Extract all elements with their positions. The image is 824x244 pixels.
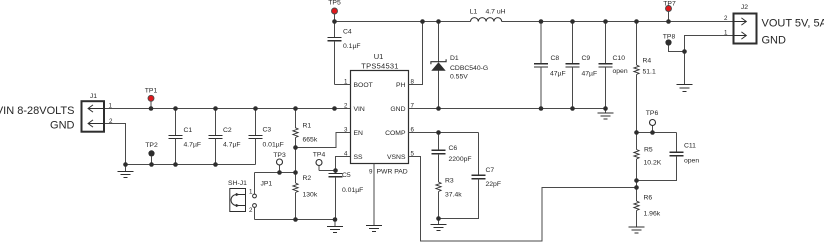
capacitor C8: [534, 22, 548, 109]
junction dots on switch node rail: [332, 19, 671, 24]
wire power ground rail: [409, 108, 606, 110]
wire VSNS feedback route: [409, 157, 637, 242]
junction dot node EN divider: [293, 145, 298, 150]
wire EN node row to JP1 and TP3: [255, 172, 296, 174]
svg-text:9: 9: [369, 169, 373, 176]
svg-text:TP8: TP8: [663, 34, 676, 41]
svg-text:0.55V: 0.55V: [450, 74, 468, 81]
capacitor C11: [670, 133, 684, 156]
svg-text:51.1: 51.1: [643, 69, 656, 76]
svg-text:665k: 665k: [303, 137, 318, 144]
capacitor C3: [249, 109, 263, 165]
wire TP6 stub: [652, 126, 654, 133]
test point TP5: [332, 8, 338, 14]
svg-text:SS: SS: [354, 154, 364, 161]
wire C4 to BOOT pin: [335, 84, 351, 86]
shunt SH-J1 symbol: [231, 193, 246, 207]
svg-text:R5: R5: [644, 147, 653, 154]
inductor L1: [471, 18, 502, 22]
svg-text:TP7: TP7: [663, 1, 676, 8]
svg-text:4.7µF: 4.7µF: [184, 142, 202, 149]
svg-text:D1: D1: [450, 55, 459, 62]
svg-text:C1: C1: [184, 127, 193, 134]
connector J1: [82, 101, 105, 132]
svg-text:2: 2: [724, 15, 728, 22]
svg-text:R2: R2: [303, 175, 312, 182]
junction dots on TP6 row: [634, 130, 655, 135]
wire switch node top rail left: [335, 21, 471, 23]
junction dot COMP node: [436, 130, 441, 135]
svg-text:2: 2: [344, 103, 348, 110]
ground symbol for compensation network: [431, 219, 447, 231]
svg-text:J1: J1: [90, 93, 97, 100]
wire PWR PAD pin 9 to ground: [373, 164, 375, 226]
svg-text:J2: J2: [741, 4, 748, 11]
svg-text:C5: C5: [342, 172, 351, 179]
wire TP6 row to C11: [637, 132, 677, 134]
op-amp U1 TPS54531 box: [351, 71, 409, 164]
svg-text:4: 4: [344, 151, 348, 158]
svg-text:C9: C9: [582, 55, 591, 62]
svg-text:C8: C8: [551, 55, 560, 62]
svg-text:VSNS: VSNS: [387, 154, 406, 161]
svg-text:VIN 8-28VOLTS: VIN 8-28VOLTS: [0, 105, 75, 117]
connector J1 pin 2 arrow: [88, 120, 104, 127]
ground symbol for output connector: [677, 52, 693, 92]
wire R1-R2 junction down to R2: [295, 148, 297, 184]
wire VIN rail from J1 to U1 VIN pin: [105, 108, 351, 110]
svg-text:TP2: TP2: [145, 142, 158, 149]
wire COMP pin row: [409, 132, 479, 134]
svg-text:C6: C6: [449, 145, 458, 152]
resistor R5: [634, 133, 639, 188]
test point TP2: [148, 150, 154, 156]
svg-text:SH-J1: SH-J1: [228, 180, 247, 187]
svg-text:EN: EN: [354, 130, 364, 137]
wire input ground rail: [126, 164, 256, 166]
capacitor C7: [472, 133, 486, 179]
junction dot C11 bottom node: [634, 178, 639, 183]
capacitor C2: [209, 109, 223, 165]
junction dot compensation ground node: [436, 216, 441, 221]
svg-text:C10: C10: [613, 55, 626, 62]
svg-text:130k: 130k: [303, 192, 318, 199]
test point TP4: [316, 160, 322, 166]
svg-text:U1: U1: [374, 52, 384, 61]
svg-text:10.2K: 10.2K: [644, 160, 662, 167]
capacitor C10: [599, 22, 613, 109]
wire D1 branch lower: [438, 71, 440, 109]
wire EN pin route to R1-R2 junction: [296, 133, 351, 148]
wire TP1 stub: [150, 102, 152, 109]
svg-text:BOOT: BOOT: [354, 82, 373, 89]
test point TP7: [666, 6, 672, 12]
wire TP4 row: [319, 170, 336, 172]
capacitor C6: [432, 133, 446, 154]
ground symbol on power ground rail: [598, 109, 614, 120]
junction dots on EN jumper row: [277, 170, 298, 175]
svg-text:22pF: 22pF: [486, 181, 502, 188]
test point TP3: [277, 159, 283, 165]
test point TP1: [148, 95, 154, 101]
test point TP6: [650, 120, 656, 126]
svg-text:37.4k: 37.4k: [445, 192, 462, 199]
ground symbol below R6: [629, 227, 645, 233]
svg-text:GND: GND: [390, 106, 405, 113]
wire JP1 pin1 up to EN row: [254, 173, 256, 195]
wire JP1 pin2 down to ground rail: [254, 208, 256, 220]
svg-text:TP4: TP4: [313, 152, 326, 159]
resistor R4: [634, 22, 639, 133]
wire PH pin to top rail: [409, 22, 423, 85]
wire C7 bottom to R3 bottom: [439, 179, 479, 219]
shunt SH-J1 box: [230, 189, 246, 212]
wire SS pin route: [336, 157, 351, 171]
svg-text:JP1: JP1: [261, 181, 273, 188]
svg-text:VIN: VIN: [354, 106, 365, 113]
capacitor C5: [329, 171, 343, 220]
svg-text:R6: R6: [644, 195, 653, 202]
wire TP4 stub: [318, 166, 320, 171]
svg-text:4.7µF: 4.7µF: [223, 142, 241, 149]
junction dots on input ground rail: [123, 162, 218, 167]
svg-text:R1: R1: [303, 123, 312, 130]
wire TP8 to output ground: [669, 46, 685, 52]
svg-text:1: 1: [724, 30, 728, 37]
junction dot feedback node: [634, 185, 639, 190]
junction dots on VIN rail: [149, 106, 337, 111]
svg-text:PH: PH: [396, 82, 406, 89]
svg-text:TPS54531: TPS54531: [361, 62, 398, 71]
capacitor C1: [169, 109, 183, 165]
junction dot output ground node: [682, 49, 687, 54]
svg-text:2: 2: [249, 207, 253, 214]
svg-text:GND: GND: [762, 35, 787, 47]
svg-text:TP5: TP5: [328, 0, 341, 7]
jumper JP1 pin 1: [253, 194, 257, 198]
wire TP2 stub: [151, 157, 153, 165]
svg-text:open: open: [684, 158, 699, 165]
connector J1 pin 1 arrow: [88, 105, 104, 112]
svg-text:C4: C4: [343, 29, 352, 36]
svg-text:1.96k: 1.96k: [644, 211, 661, 218]
svg-text:47µF: 47µF: [550, 71, 566, 78]
svg-text:C11: C11: [684, 143, 696, 150]
svg-text:CDBC540-G: CDBC540-G: [450, 65, 488, 72]
wire J2 pin1 to ground node: [685, 36, 734, 52]
wire TP3 stub: [279, 165, 281, 173]
junction dot SS node: [333, 168, 338, 173]
svg-text:C2: C2: [223, 127, 232, 134]
wire TP5 stub: [334, 14, 336, 22]
svg-text:PWR PAD: PWR PAD: [377, 169, 408, 176]
svg-text:R4: R4: [643, 58, 652, 65]
wire output top rail: [502, 21, 734, 23]
svg-text:0.1µF: 0.1µF: [343, 43, 361, 50]
junction dots on power ground rail: [436, 106, 608, 111]
svg-text:TP1: TP1: [145, 88, 158, 95]
svg-text:COMP: COMP: [385, 130, 406, 137]
svg-text:R3: R3: [445, 178, 454, 185]
wire D1 branch upper: [438, 22, 440, 62]
junction dots on enable ground rail: [293, 217, 337, 222]
svg-text:L1: L1: [470, 9, 478, 16]
svg-text:C3: C3: [263, 127, 272, 134]
capacitor C9: [566, 22, 580, 109]
ground symbol for input connector: [118, 165, 134, 178]
svg-text:VOUT 5V, 5A: VOUT 5V, 5A: [762, 18, 824, 30]
wire J1 pin2 to input ground rail: [105, 124, 126, 165]
svg-text:TP3: TP3: [273, 152, 286, 159]
svg-text:C7: C7: [486, 167, 495, 174]
wire C11 bottom to R5 bottom: [637, 156, 677, 181]
svg-text:0.01µF: 0.01µF: [342, 187, 363, 194]
wire TP7 stub: [668, 12, 670, 22]
svg-text:GND: GND: [50, 120, 75, 132]
resistor R6: [634, 188, 639, 228]
ground symbol for PWR PAD: [366, 226, 382, 232]
test point TP8: [665, 39, 671, 45]
resistor R3: [436, 154, 441, 219]
jumper JP1 pin 2: [253, 204, 257, 208]
ground symbol below enable rail: [327, 220, 343, 233]
resistor R2: [293, 173, 298, 220]
resistor R1: [293, 109, 298, 148]
capacitor C4: [328, 22, 342, 85]
svg-text:0.01µF: 0.01µF: [263, 142, 284, 149]
connector J2 pin 1 arrow: [734, 32, 746, 39]
svg-text:47µF: 47µF: [582, 71, 598, 78]
connector J2 pin 2 arrow: [734, 18, 746, 25]
svg-text:open: open: [613, 68, 628, 75]
wire enable ground rail: [255, 219, 336, 221]
svg-text:4.7 uH: 4.7 uH: [486, 9, 506, 16]
svg-text:3: 3: [344, 127, 348, 134]
svg-text:1: 1: [249, 189, 253, 196]
svg-text:TP6: TP6: [646, 110, 659, 117]
connector J2: [734, 14, 757, 44]
diode D1 schottky: [431, 59, 446, 70]
svg-text:2200pF: 2200pF: [449, 156, 472, 163]
